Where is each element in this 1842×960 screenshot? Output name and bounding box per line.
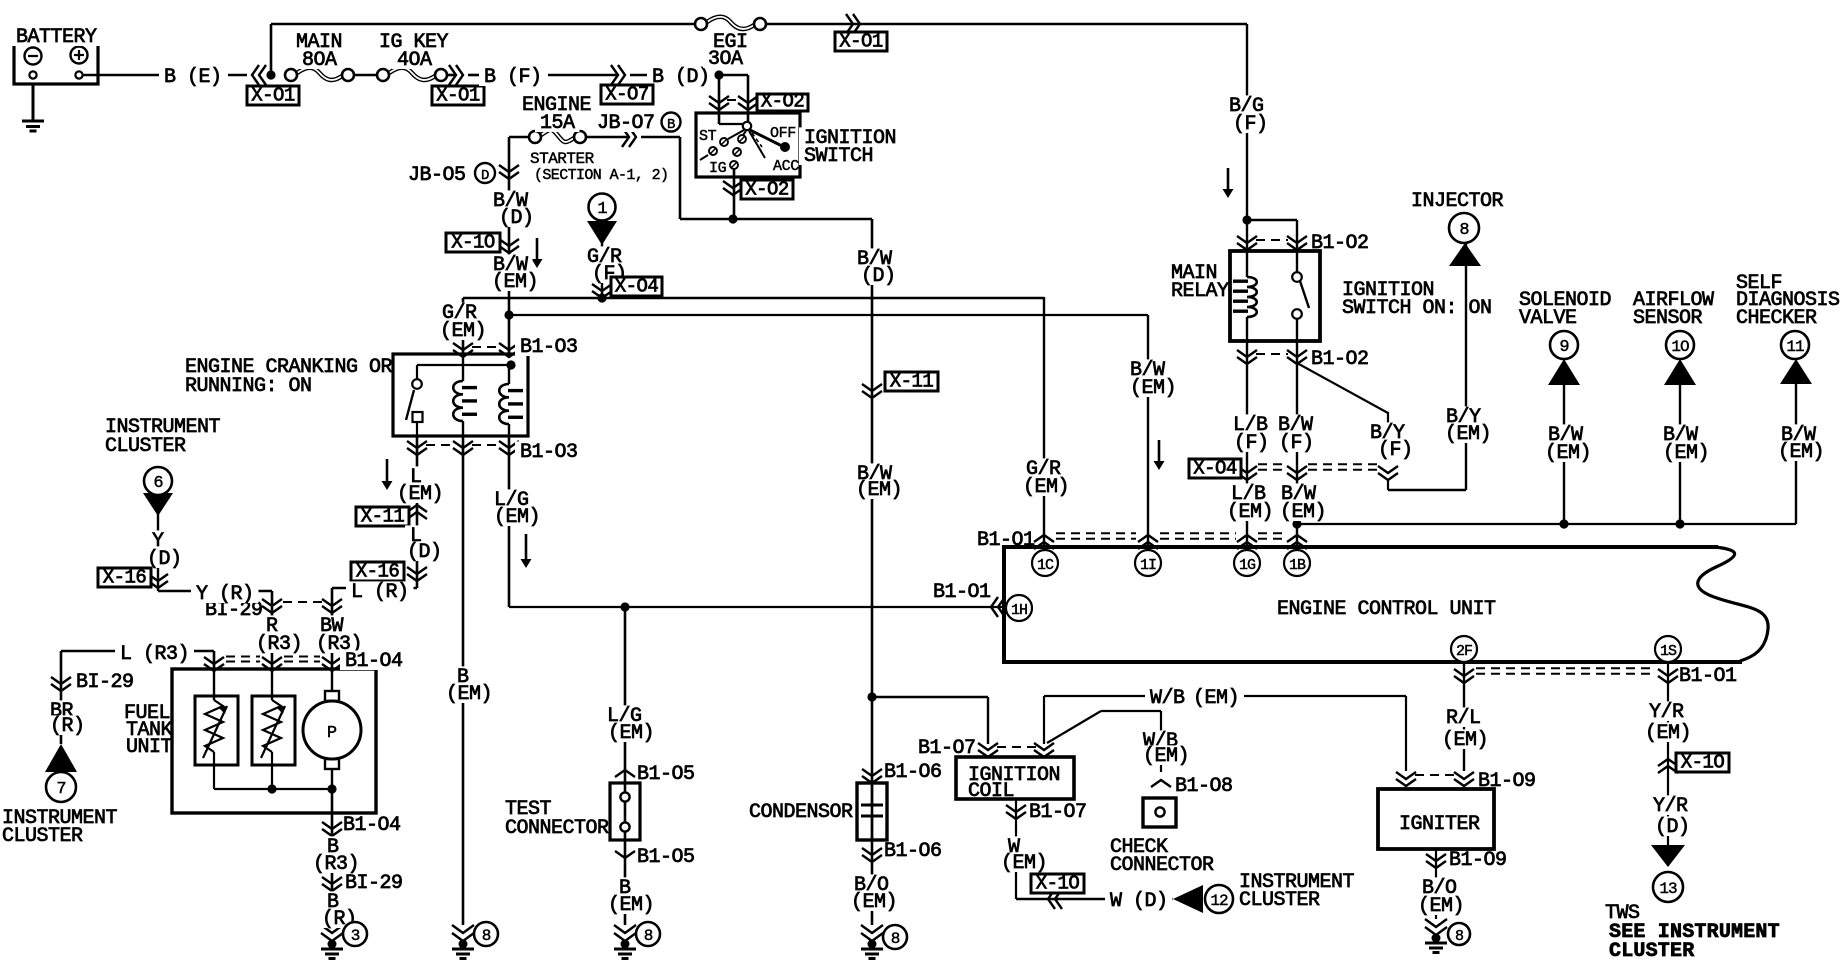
svg-text:B1-O8: B1-O8	[1175, 775, 1233, 798]
svg-text:1B: 1B	[1289, 557, 1306, 574]
svg-text:B1-O5: B1-O5	[637, 763, 695, 786]
svg-text:9: 9	[1559, 338, 1569, 357]
svg-text:6: 6	[153, 474, 163, 493]
svg-text:1: 1	[597, 200, 607, 219]
svg-text:BI-29: BI-29	[345, 872, 403, 895]
svg-text:CONNECTOR: CONNECTOR	[1110, 854, 1214, 877]
svg-text:B1-O9: B1-O9	[1449, 849, 1507, 872]
svg-text:ACC: ACC	[773, 158, 799, 175]
svg-text:(EM): (EM)	[1280, 501, 1326, 524]
svg-text:CLUSTER: CLUSTER	[1609, 940, 1694, 960]
svg-text:B (E): B (E)	[164, 66, 222, 89]
svg-text:X-16: X-16	[356, 561, 400, 583]
svg-text:L (R): L (R)	[351, 581, 409, 604]
svg-text:W (D): W (D)	[1110, 890, 1168, 913]
svg-text:3OA: 3OA	[708, 48, 743, 71]
svg-text:(EM): (EM)	[1023, 476, 1069, 499]
svg-text:(EM): (EM)	[1545, 442, 1591, 465]
svg-text:X-1O: X-1O	[451, 232, 495, 254]
svg-text:1S: 1S	[1660, 643, 1677, 660]
svg-text:2F: 2F	[1456, 643, 1472, 660]
svg-text:(F): (F)	[1234, 432, 1269, 455]
svg-text:(EM): (EM)	[1442, 729, 1488, 752]
svg-text:B (D): B (D)	[652, 66, 710, 89]
svg-text:(EM): (EM)	[446, 683, 492, 706]
svg-text:8: 8	[891, 930, 900, 948]
svg-text:(D): (D)	[861, 265, 896, 288]
svg-text:(EM): (EM)	[1193, 687, 1239, 710]
svg-text:8OA: 8OA	[302, 49, 337, 72]
svg-text:D: D	[481, 168, 489, 184]
svg-text:(EM): (EM)	[1227, 501, 1273, 524]
svg-text:COIL: COIL	[968, 780, 1014, 803]
svg-text:X-O2: X-O2	[761, 91, 805, 113]
svg-text:B: B	[667, 117, 675, 133]
svg-text:B1-O3: B1-O3	[520, 441, 578, 464]
svg-text:X-O7: X-O7	[605, 84, 649, 106]
svg-text:BATTERY: BATTERY	[16, 26, 97, 49]
svg-text:X-11: X-11	[361, 506, 405, 528]
svg-text:VALVE: VALVE	[1519, 307, 1577, 330]
svg-text:CLUSTER: CLUSTER	[1239, 889, 1320, 912]
svg-text:15A: 15A	[540, 112, 575, 135]
svg-text:B1-O9: B1-O9	[1478, 770, 1536, 793]
svg-text:1O: 1O	[1671, 338, 1689, 356]
svg-text:8: 8	[1455, 928, 1464, 945]
svg-text:W/B: W/B	[1150, 687, 1185, 710]
svg-text:JB-O5: JB-O5	[408, 164, 466, 187]
svg-text:X-O4: X-O4	[615, 276, 659, 298]
svg-text:B (F): B (F)	[484, 66, 542, 89]
svg-text:1H: 1H	[1011, 602, 1027, 619]
svg-text:(EM): (EM)	[608, 894, 654, 917]
svg-text:7: 7	[56, 780, 65, 799]
svg-text:(SECTION A-1, 2): (SECTION A-1, 2)	[534, 167, 668, 184]
svg-text:CONNECTOR: CONNECTOR	[505, 817, 609, 840]
svg-text:8: 8	[644, 927, 653, 945]
svg-text:B1-O1: B1-O1	[977, 529, 1035, 552]
svg-text:B1-O4: B1-O4	[343, 814, 401, 837]
svg-text:BI-29: BI-29	[76, 671, 134, 694]
svg-text:SWITCH ON: ON: SWITCH ON: ON	[1342, 297, 1492, 320]
svg-text:(R3): (R3)	[256, 633, 302, 656]
svg-text:B1-O4: B1-O4	[345, 650, 403, 673]
svg-text:B1-O1: B1-O1	[1679, 665, 1737, 688]
svg-text:11: 11	[1786, 338, 1804, 356]
svg-text:(R): (R)	[50, 715, 85, 738]
svg-text:INJECTOR: INJECTOR	[1411, 190, 1504, 213]
svg-text:(EM): (EM)	[494, 506, 540, 529]
svg-text:ST: ST	[699, 128, 717, 145]
svg-text:X-O4: X-O4	[1193, 458, 1237, 480]
svg-text:X-11: X-11	[890, 371, 934, 393]
svg-text:X-16: X-16	[103, 567, 147, 589]
svg-text:(EM): (EM)	[1130, 377, 1176, 400]
svg-text:JB-O7: JB-O7	[597, 112, 655, 135]
svg-text:P: P	[327, 724, 337, 743]
svg-text:CHECKER: CHECKER	[1736, 307, 1817, 330]
svg-text:(EM): (EM)	[851, 891, 897, 914]
svg-text:RELAY: RELAY	[1171, 280, 1229, 303]
svg-text:STARTER: STARTER	[530, 150, 595, 168]
svg-text:(EM): (EM)	[1645, 722, 1691, 745]
svg-text:X-O2: X-O2	[745, 179, 789, 201]
svg-text:IGNITER: IGNITER	[1399, 813, 1480, 836]
svg-text:(F): (F)	[1279, 432, 1314, 455]
svg-text:ENGINE CONTROL UNIT: ENGINE CONTROL UNIT	[1277, 598, 1496, 621]
svg-text:(F): (F)	[1233, 113, 1268, 136]
svg-text:B1-O7: B1-O7	[1029, 801, 1087, 824]
svg-text:SENSOR: SENSOR	[1633, 307, 1703, 330]
svg-text:B1-O7: B1-O7	[918, 737, 976, 760]
svg-text:X-O1: X-O1	[251, 85, 295, 107]
svg-text:OFF: OFF	[770, 125, 796, 142]
svg-text:B1-O2: B1-O2	[1311, 232, 1369, 255]
svg-text:X-1O: X-1O	[1036, 873, 1080, 895]
svg-text:1I: 1I	[1140, 557, 1156, 574]
svg-text:1G: 1G	[1239, 557, 1256, 574]
svg-text:RUNNING: ON: RUNNING: ON	[185, 375, 312, 398]
svg-text:Y/R: Y/R	[1649, 701, 1684, 724]
svg-text:(EM): (EM)	[1663, 442, 1709, 465]
svg-text:B1-O2: B1-O2	[1311, 348, 1369, 371]
svg-text:8: 8	[482, 927, 491, 945]
svg-text:(EM): (EM)	[608, 722, 654, 745]
svg-text:(D): (D)	[1655, 816, 1690, 839]
svg-text:(D): (D)	[499, 207, 534, 230]
svg-text:B1-O3: B1-O3	[520, 336, 578, 359]
svg-text:B1-O1: B1-O1	[933, 581, 991, 604]
svg-text:UNIT: UNIT	[126, 736, 173, 759]
svg-text:CONDENSOR: CONDENSOR	[749, 801, 853, 824]
svg-text:B1-O5: B1-O5	[637, 846, 695, 869]
svg-text:4OA: 4OA	[397, 49, 432, 72]
svg-text:(EM): (EM)	[440, 320, 486, 343]
svg-text:R/L: R/L	[1446, 707, 1481, 730]
svg-text:(EM): (EM)	[1778, 441, 1824, 464]
svg-text:B1-O6: B1-O6	[884, 761, 942, 784]
svg-text:B1-O6: B1-O6	[884, 840, 942, 863]
svg-text:8: 8	[1459, 221, 1469, 240]
svg-text:13: 13	[1659, 880, 1677, 898]
svg-text:X-O1: X-O1	[839, 31, 883, 53]
svg-text:(D): (D)	[407, 541, 442, 564]
svg-text:Y/R: Y/R	[1653, 795, 1688, 818]
svg-text:(EM): (EM)	[397, 483, 443, 506]
svg-text:(EM): (EM)	[1143, 745, 1189, 768]
svg-text:(EM): (EM)	[856, 479, 902, 502]
svg-text:3: 3	[351, 927, 360, 945]
svg-text:CLUSTER: CLUSTER	[2, 825, 83, 848]
svg-text:12: 12	[1210, 892, 1228, 910]
svg-text:X-O1: X-O1	[436, 85, 480, 107]
svg-text:SWITCH: SWITCH	[804, 145, 873, 168]
svg-text:(EM): (EM)	[1418, 895, 1464, 918]
svg-text:L (R3): L (R3)	[120, 643, 189, 666]
svg-text:X-1O: X-1O	[1681, 752, 1725, 774]
svg-text:(EM): (EM)	[492, 271, 538, 294]
svg-text:IG: IG	[709, 160, 727, 177]
svg-text:Y (R): Y (R)	[196, 583, 254, 606]
svg-text:(F): (F)	[1378, 439, 1413, 462]
svg-text:CLUSTER: CLUSTER	[105, 435, 186, 458]
svg-text:(EM): (EM)	[1445, 423, 1491, 446]
svg-text:1C: 1C	[1037, 557, 1054, 574]
